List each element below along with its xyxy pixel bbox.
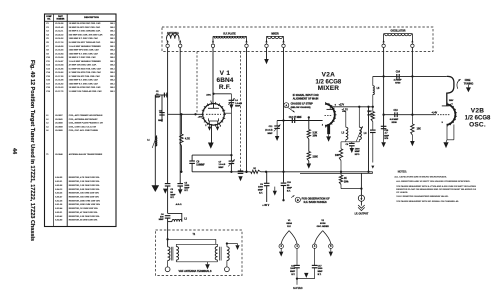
svg-text:MMF: MMF [384, 135, 389, 137]
svg-text:RESISTOR, 2.2K OHM 1/2W 10%: RESISTOR, 2.2K OHM 1/2W 10% [69, 216, 100, 218]
svg-text:C12 47 MMF: C12 47 MMF [289, 116, 303, 119]
svg-text:220K: 220K [313, 157, 319, 159]
svg-text:2.7 MMF 5% N75 TUB. CER. CAP.: 2.7 MMF 5% N75 TUB. CER. CAP. [69, 75, 101, 78]
svg-text:20-40-32: 20-40-32 [55, 34, 64, 37]
svg-text:1.0-4.5: 1.0-4.5 [219, 163, 226, 166]
svg-text:2.7MMF: 2.7MMF [394, 80, 403, 82]
svg-text:NPO: NPO [355, 154, 360, 156]
svg-text:6-64-05: 6-64-05 [55, 176, 63, 179]
svg-text:Fig. 40 12 Position Target Tu: Fig. 40 12 Position Target Tuner Used in… [29, 60, 35, 241]
svg-text:MMF: MMF [235, 106, 241, 108]
svg-text:RESISTOR, 5.6K OHM 1/2W 10%: RESISTOR, 5.6K OHM 1/2W 10% [69, 189, 100, 191]
svg-text:21-10-08: 21-10-08 [55, 57, 64, 59]
svg-text:MMF: MMF [287, 188, 293, 190]
svg-text:A.G.C.: A.G.C. [176, 203, 183, 206]
svg-text:1K: 1K [253, 168, 256, 170]
svg-text:21-18-03: 21-18-03 [55, 50, 64, 52]
svg-text:20-3659: 20-3659 [55, 127, 63, 129]
svg-text:E.T.: E.T. [287, 190, 291, 192]
svg-text:COIL, MIXER PLATE PEAKING 1 U: COIL, MIXER PLATE PEAKING 1 UH [69, 122, 104, 125]
svg-text:RESISTOR, 4.7K OHM 1/2W 10%: RESISTOR, 4.7K OHM 1/2W 10% [69, 176, 100, 179]
svg-text:MMF: MMF [290, 271, 296, 273]
svg-text:ANTENNA BALUN TRANSFORMER: ANTENNA BALUN TRANSFORMER [69, 153, 103, 156]
svg-text:RESISTOR, 15K OHM 1/2W 10%: RESISTOR, 15K OHM 1/2W 10% [69, 197, 99, 199]
svg-text:22-19-04: 22-19-04 [55, 64, 64, 67]
svg-text:5.6 MMF 5% NPO TUBULAR CAP.: 5.6 MMF 5% NPO TUBULAR CAP. [69, 41, 101, 44]
svg-text:C14: C14 [396, 71, 401, 74]
svg-text:I.F. OUTPUT: I.F. OUTPUT [355, 212, 369, 215]
svg-text:R.F. BAND PASSES: R.F. BAND PASSES [304, 201, 327, 204]
svg-text:1000 MMF NPO DISC CER. CAP.: 1000 MMF NPO DISC CER. CAP. [69, 49, 100, 52]
svg-text:A: A [285, 103, 287, 107]
svg-text:DESCRIPTION: DESCRIPTION [84, 17, 99, 19]
svg-text:22-16-52: 22-16-52 [55, 38, 64, 40]
svg-text:5.6MMF: 5.6MMF [196, 165, 205, 167]
svg-text:20-3646: 20-3646 [55, 153, 63, 156]
svg-text:(1.0-4.5): (1.0-4.5) [265, 129, 273, 132]
svg-text:ALL CAPACITORS ARE IN MICRO MI: ALL CAPACITORS ARE IN MICRO MICROFARADS. [394, 175, 447, 178]
svg-text:10%: 10% [367, 114, 371, 116]
svg-text:6-64-60: 6-64-60 [55, 219, 63, 222]
svg-text:V 1: V 1 [220, 70, 231, 77]
svg-text:160-2: 160-2 [110, 87, 115, 89]
svg-text:RESISTOR, 10K OHM 1/2W 10%: RESISTOR, 10K OHM 1/2W 10% [69, 193, 99, 195]
svg-text:6-65-31: 6-65-31 [55, 212, 63, 214]
svg-text:1000: 1000 [355, 148, 361, 150]
svg-text:6BN4: 6BN4 [216, 77, 233, 84]
svg-text:OSC. MIXER: OSC. MIXER [317, 226, 330, 228]
svg-text:160-1: 160-1 [110, 68, 115, 70]
svg-text:21-18-62: 21-18-62 [55, 72, 64, 74]
svg-text:R.F.: R.F. [287, 226, 291, 228]
svg-text:22-40-58: 22-40-58 [55, 45, 64, 48]
svg-text:1000: 1000 [258, 187, 264, 189]
svg-text:160-1: 160-1 [110, 83, 115, 85]
svg-text:6-64-13: 6-64-13 [55, 188, 63, 191]
svg-text:ALIGNMENT OF MAIN: ALIGNMENT OF MAIN [293, 98, 319, 101]
svg-text:20-3658: 20-3658 [55, 123, 63, 125]
svg-text:160-1: 160-1 [110, 38, 115, 40]
svg-text:OSCILLATOR: OSCILLATOR [391, 29, 406, 32]
svg-text:21-17-75: 21-17-75 [55, 91, 64, 93]
svg-text:COIL, CONV. ADJ. 0.5-1.0 UH: COIL, CONV. ADJ. 0.5-1.0 UH [69, 126, 97, 129]
svg-text:RESISTOR, 47 OHM 1/2W 10%: RESISTOR, 47 OHM 1/2W 10% [69, 211, 98, 214]
svg-text:1.0-4.5 MMF VARIABLE TRIMMER: 1.0-4.5 MMF VARIABLE TRIMMER [69, 45, 101, 48]
svg-text:21-14-67: 21-14-67 [55, 60, 64, 63]
svg-text:MMF: MMF [155, 97, 161, 99]
svg-text:15K: 15K [417, 128, 422, 130]
svg-text:E.T.: E.T. [184, 190, 188, 192]
svg-text:1K: 1K [344, 178, 347, 180]
svg-text:10 MMF 5% N750 DISC CER. CAP.: 10 MMF 5% N750 DISC CER. CAP. [69, 22, 101, 25]
svg-text:6-62-28: 6-62-28 [55, 200, 63, 202]
svg-text:4.7K: 4.7K [185, 138, 190, 141]
svg-text:6-66-47: 6-66-47 [55, 196, 63, 199]
svg-text:COIL, OSC. ADJ. FINE TUNING: COIL, OSC. ADJ. FINE TUNING [69, 129, 99, 132]
svg-text:MIXER: MIXER [271, 33, 279, 35]
svg-text:21-15-98: 21-15-98 [55, 80, 64, 82]
svg-text:1000 MMF E.T. DISC CER. CAP.: 1000 MMF E.T. DISC CER. CAP. [69, 52, 99, 55]
svg-text:21-17-03: 21-17-03 [55, 76, 64, 78]
svg-text:V2A: V2A [322, 71, 336, 78]
svg-text:RESISTOR, 1.5K OHM 1/2W 10%: RESISTOR, 1.5K OHM 1/2W 10% [69, 185, 100, 187]
svg-text:160-2: 160-2 [110, 42, 115, 44]
svg-text:160-1: 160-1 [110, 46, 115, 48]
svg-text:21-16-08: 21-16-08 [55, 23, 64, 25]
svg-text:NO.: NO. [47, 18, 51, 20]
svg-text:R.F. PLATE: R.F. PLATE [223, 32, 236, 35]
svg-text:160-1: 160-1 [110, 91, 115, 93]
svg-text:21-19-64: 21-19-64 [55, 52, 64, 55]
svg-text:500 MMF DISC CER. 20% GMV CAP.: 500 MMF DISC CER. 20% GMV CAP. [69, 34, 103, 37]
svg-text:20-21-45: 20-21-45 [55, 26, 64, 29]
svg-text:6.8 MMF 5% N330 TUB. CER. CAP.: 6.8 MMF 5% N330 TUB. CER. CAP. [69, 67, 102, 70]
svg-text:160-3: 160-3 [110, 35, 115, 37]
svg-text:6-63-44: 6-63-44 [55, 207, 63, 210]
svg-text:MMF: MMF [219, 167, 225, 169]
svg-text:V2B: V2B [471, 108, 485, 115]
svg-text:-4.4V: -4.4V [431, 111, 437, 114]
svg-text:6-60-25: 6-60-25 [55, 193, 63, 195]
svg-text:RESISTOR, 200K OHM 1/2W 10%: RESISTOR, 200K OHM 1/2W 10% [69, 200, 100, 202]
svg-text:AGC: AGC [206, 94, 211, 97]
svg-text:39 MMF 5% NPO DISC CER. CAP.: 39 MMF 5% NPO DISC CER. CAP. [69, 26, 101, 29]
svg-text:FINE: FINE [465, 79, 471, 82]
svg-text:+ 80 V: + 80 V [262, 204, 269, 207]
svg-text:10K: 10K [335, 155, 340, 157]
svg-text:VOLTAGES MEASURED WITH A VTVM: VOLTAGES MEASURED WITH A VTVM AND A 300 … [396, 185, 476, 188]
svg-text:160-1: 160-1 [110, 31, 115, 33]
svg-text:V.H.F. REMOTES GUARANTEED MINI: V.H.F. REMOTES GUARANTEED MINIMUM VALUE. [396, 195, 449, 198]
svg-text:RESISTOR FLOAT ON MEASURING EN: RESISTOR FLOAT ON MEASURING END OF RESIS… [396, 188, 477, 191]
svg-text:44: 44 [11, 148, 17, 155]
svg-text:160-2: 160-2 [110, 50, 115, 52]
svg-text:6-60-42: 6-60-42 [55, 215, 63, 218]
svg-text:E.T.: E.T. [291, 274, 295, 276]
svg-text:21-16-52: 21-16-52 [55, 83, 64, 85]
svg-text:1000 MMF E.T. DISC CER. CAP.: 1000 MMF E.T. DISC CER. CAP. [69, 37, 99, 40]
svg-text:160-2: 160-2 [110, 57, 115, 59]
svg-text:21-17-18: 21-17-18 [55, 42, 64, 44]
svg-text:20-3657: 20-3657 [55, 115, 63, 117]
svg-text:OF LEADS.: OF LEADS. [396, 191, 408, 194]
svg-text:6-63-21: 6-63-21 [55, 181, 63, 183]
svg-text:2.7 MMF 5% N750 TUB. CER. CAP.: 2.7 MMF 5% N750 TUB. CER. CAP. [69, 71, 102, 74]
svg-text:21-14-11: 21-14-11 [55, 30, 64, 33]
svg-text:1.0-4.5: 1.0-4.5 [235, 102, 242, 105]
svg-text:20-3660: 20-3660 [55, 130, 63, 132]
svg-text:COIL, ANTENNA SECONDARY: COIL, ANTENNA SECONDARY [69, 118, 98, 121]
svg-text:160-1: 160-1 [110, 23, 115, 25]
svg-text:MMF: MMF [268, 133, 274, 135]
svg-text:160-3: 160-3 [110, 65, 115, 67]
svg-text:1.0-4.5 MMF VARIABLE TRIMMER: 1.0-4.5 MMF VARIABLE TRIMMER [69, 60, 101, 63]
svg-text:NUMBER: NUMBER [56, 18, 65, 20]
svg-text:21-15-23: 21-15-23 [55, 87, 64, 89]
svg-text:20-3641: 20-3641 [55, 118, 63, 121]
svg-text:21-16-85: 21-16-85 [55, 68, 64, 70]
svg-text:1000 MMF E.T. DISC CER. CAP.: 1000 MMF E.T. DISC CER. CAP. [69, 82, 99, 85]
svg-text:VHF ANTENNA TERMINALS: VHF ANTENNA TERMINALS [178, 270, 211, 273]
svg-text:(BELOW CHASSIS): (BELOW CHASSIS) [291, 106, 311, 109]
svg-text:47 MMF 10% DISC CER. CAP.: 47 MMF 10% DISC CER. CAP. [69, 64, 97, 67]
svg-text:CHASSIS I.F STRIP: CHASSIS I.F STRIP [291, 103, 314, 106]
svg-text:6.3 VAC: 6.3 VAC [293, 287, 302, 290]
svg-text:1.5K: 1.5K [367, 111, 372, 113]
svg-text:160-2: 160-2 [110, 27, 115, 29]
svg-text:B: B [297, 198, 299, 202]
svg-text:30 MMF E.T. DISC CER. CAP.: 30 MMF E.T. DISC CER. CAP. [69, 56, 97, 59]
svg-text:MMF: MMF [355, 151, 361, 153]
svg-text:50 MMF E.T. DISC CERAMIC CAP.: 50 MMF E.T. DISC CERAMIC CAP. [69, 30, 101, 33]
svg-text:NOTES:: NOTES: [398, 170, 407, 173]
svg-text:COIL, ANT. PRIMARY ADJUSTABLE: COIL, ANT. PRIMARY ADJUSTABLE [69, 114, 103, 117]
svg-text:1000 MMF E.T. DISC CER. CAP.: 1000 MMF E.T. DISC CER. CAP. [69, 79, 99, 82]
svg-text:+17V: +17V [339, 105, 345, 107]
svg-text:ALL RESISTORS ARE 1/2 WATT 10: ALL RESISTORS ARE 1/2 WATT 10% UNLESS OT… [396, 180, 470, 183]
svg-text:160-2: 160-2 [110, 80, 115, 82]
svg-text:3.3K: 3.3K [313, 132, 318, 134]
svg-text:1000: 1000 [290, 268, 296, 270]
svg-text:MMF: MMF [318, 271, 324, 273]
svg-text:1.5 MMF 10% TUBULAR CER. CAP.: 1.5 MMF 10% TUBULAR CER. CAP. [69, 90, 103, 93]
svg-text:160-2: 160-2 [110, 72, 115, 74]
svg-text:6-65-08: 6-65-08 [55, 185, 63, 187]
svg-text:160-1: 160-1 [110, 53, 115, 55]
svg-text:E.T.: E.T. [170, 197, 174, 199]
svg-text:6BN4: 6BN4 [286, 222, 292, 225]
svg-text:R.F.: R.F. [219, 84, 231, 91]
svg-text:N750: N750 [395, 82, 401, 84]
svg-text:E.T.: E.T. [318, 274, 322, 276]
svg-text:MMF: MMF [159, 219, 165, 221]
svg-text:N330: N330 [392, 122, 398, 124]
svg-text:6-61-26: 6-61-26 [55, 204, 63, 206]
svg-text:RESISTOR, 1K OHM 1/2W 10%: RESISTOR, 1K OHM 1/2W 10% [69, 208, 98, 210]
svg-text:-20V: -20V [198, 117, 203, 119]
svg-text:MMF: MMF [158, 120, 163, 122]
svg-text:10 MMF 5% N750 DISC CER. CAP.: 10 MMF 5% N750 DISC CER. CAP. [69, 86, 101, 89]
svg-text:MIXER: MIXER [318, 85, 340, 92]
svg-text:6.8 MMF: 6.8 MMF [390, 119, 399, 121]
svg-text:FOR OBSERVATION OF: FOR OBSERVATION OF [302, 198, 331, 201]
svg-text:E.T.: E.T. [259, 192, 263, 194]
svg-text:1000: 1000 [318, 268, 324, 270]
svg-text:6CG8: 6CG8 [320, 223, 326, 225]
svg-text:RESISTOR, 3.3K OHM 1/2W 10%: RESISTOR, 3.3K OHM 1/2W 10% [69, 181, 100, 183]
svg-text:VOLTAGES MEASURED WITH NO SIGN: VOLTAGES MEASURED WITH NO SIGNAL ON CHAN… [396, 200, 459, 203]
svg-text:160-1: 160-1 [110, 61, 115, 63]
svg-text:2MV: 2MV [449, 100, 454, 102]
svg-text:10%: 10% [344, 181, 349, 183]
svg-text:10%: 10% [313, 135, 318, 137]
svg-text:OSC.: OSC. [469, 122, 486, 129]
svg-text:160-1: 160-1 [110, 76, 115, 78]
svg-text:RESISTOR, 68 OHM 1/2W 10%: RESISTOR, 68 OHM 1/2W 10% [69, 220, 98, 222]
svg-text:MMF: MMF [258, 190, 264, 192]
svg-text:RESISTOR, 220K OHM 1/2W 10%: RESISTOR, 220K OHM 1/2W 10% [69, 204, 100, 206]
